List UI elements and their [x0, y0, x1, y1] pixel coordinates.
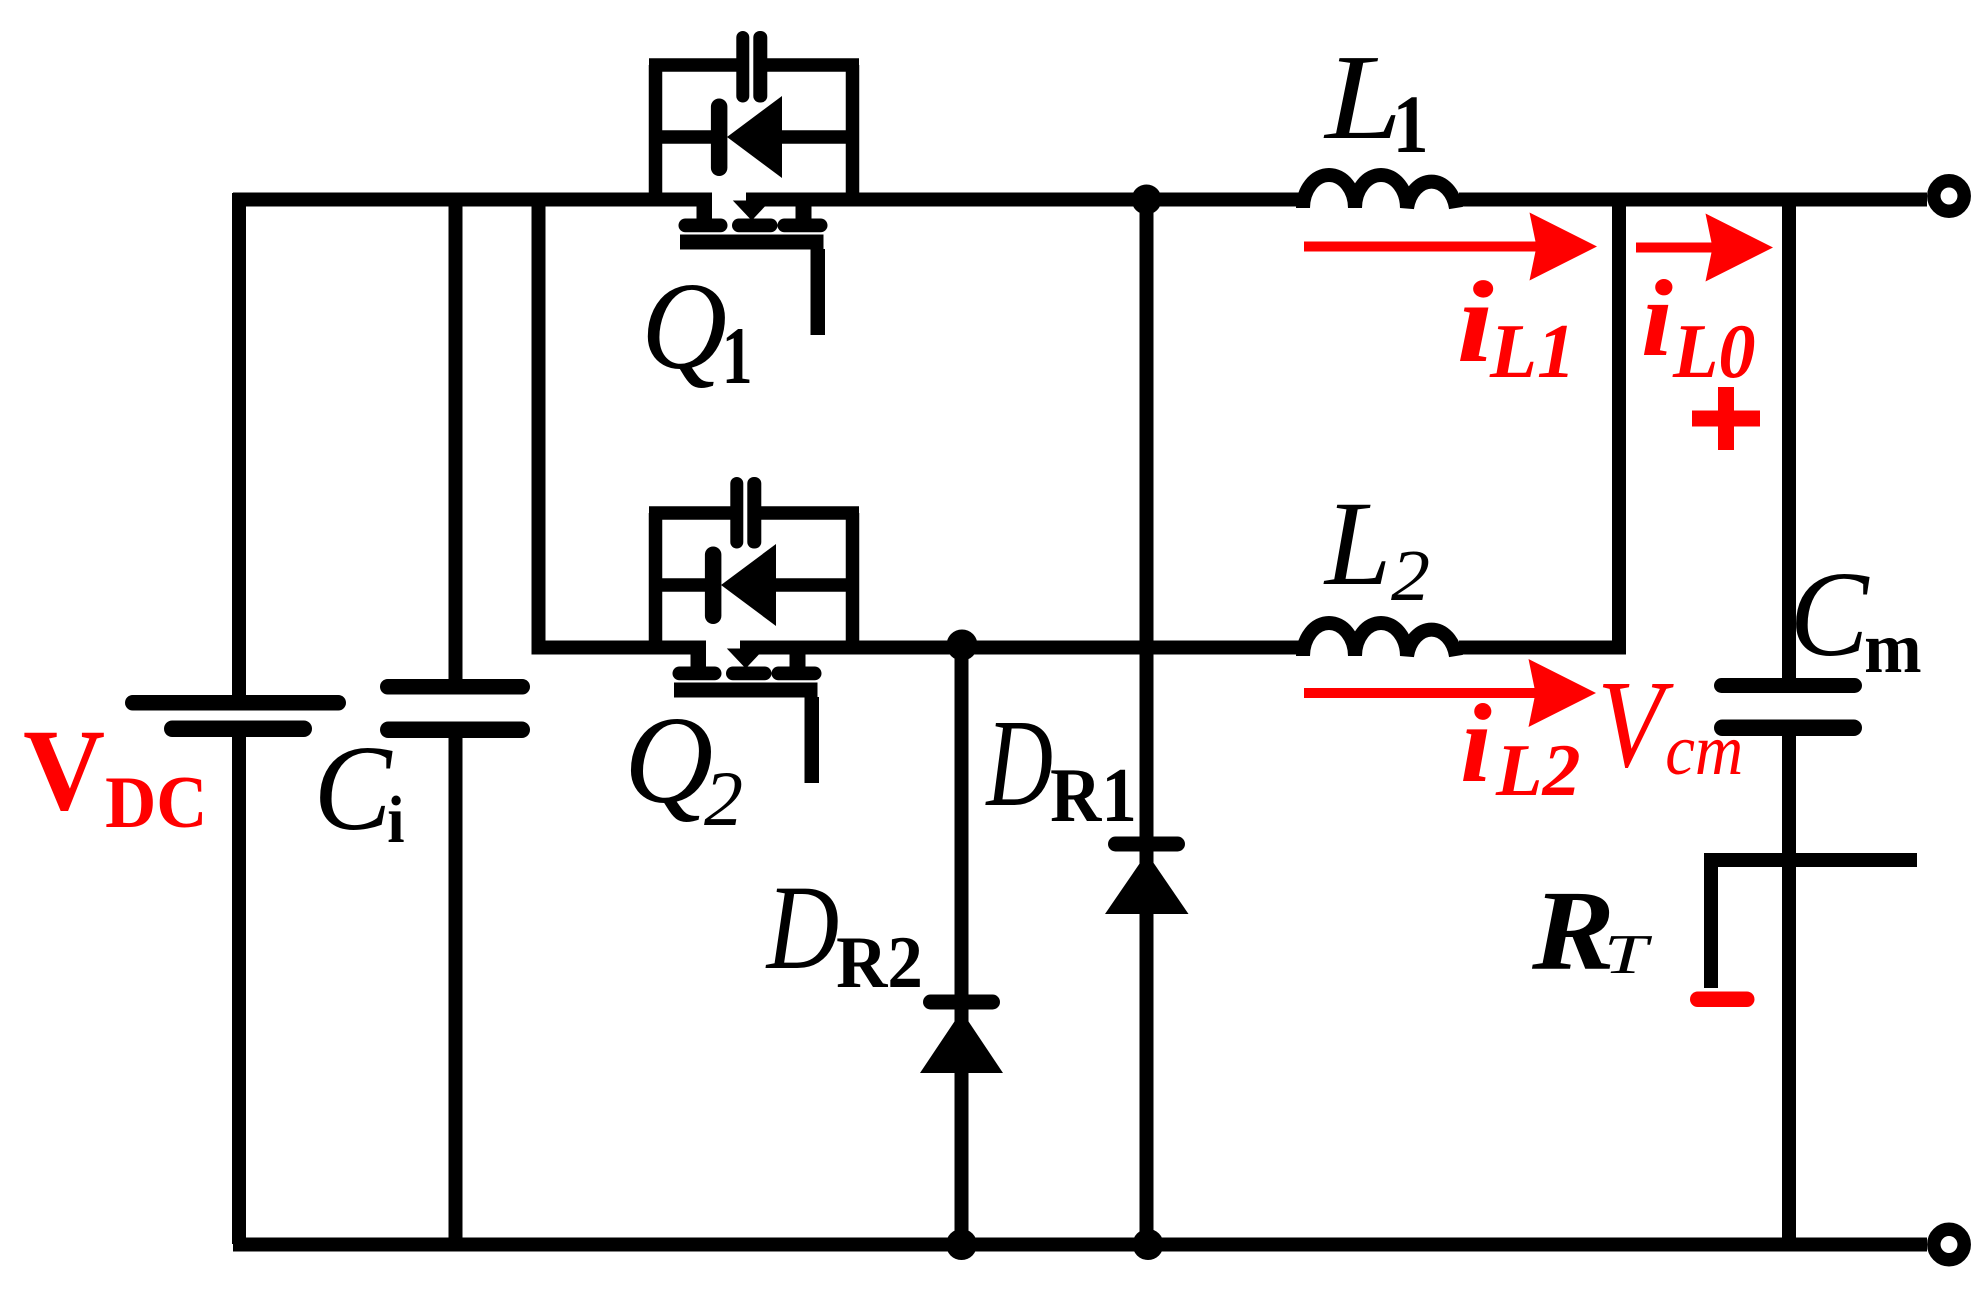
svg-text:i: i	[1641, 259, 1673, 380]
svg-text:V: V	[1597, 656, 1674, 794]
svg-text:Q: Q	[641, 257, 727, 395]
svg-text:T: T	[1604, 923, 1652, 985]
svg-text:m: m	[1864, 609, 1921, 689]
svg-text:DC: DC	[105, 760, 207, 843]
svg-text:R: R	[1531, 866, 1615, 994]
svg-text:cm: cm	[1665, 711, 1743, 791]
svg-text:i: i	[387, 782, 404, 856]
svg-text:D: D	[985, 693, 1053, 832]
svg-text:L0: L0	[1672, 310, 1755, 394]
svg-text:L2: L2	[1495, 730, 1581, 812]
svg-text:i: i	[1460, 681, 1492, 806]
svg-text:L1: L1	[1489, 308, 1576, 394]
svg-text:R1: R1	[1050, 753, 1137, 838]
svg-text:R2: R2	[836, 921, 923, 1004]
svg-text:V: V	[23, 706, 105, 834]
svg-text:L: L	[1323, 30, 1402, 165]
svg-text:1: 1	[1393, 78, 1429, 170]
svg-text:D: D	[765, 861, 839, 995]
svg-text:2: 2	[1391, 536, 1430, 616]
svg-text:L: L	[1323, 477, 1391, 611]
svg-text:C: C	[1790, 547, 1871, 682]
svg-text:C: C	[314, 721, 393, 856]
svg-text:2: 2	[704, 755, 743, 842]
svg-text:i: i	[1457, 258, 1494, 387]
svg-text:Q: Q	[624, 690, 713, 829]
svg-text:1: 1	[722, 311, 753, 401]
